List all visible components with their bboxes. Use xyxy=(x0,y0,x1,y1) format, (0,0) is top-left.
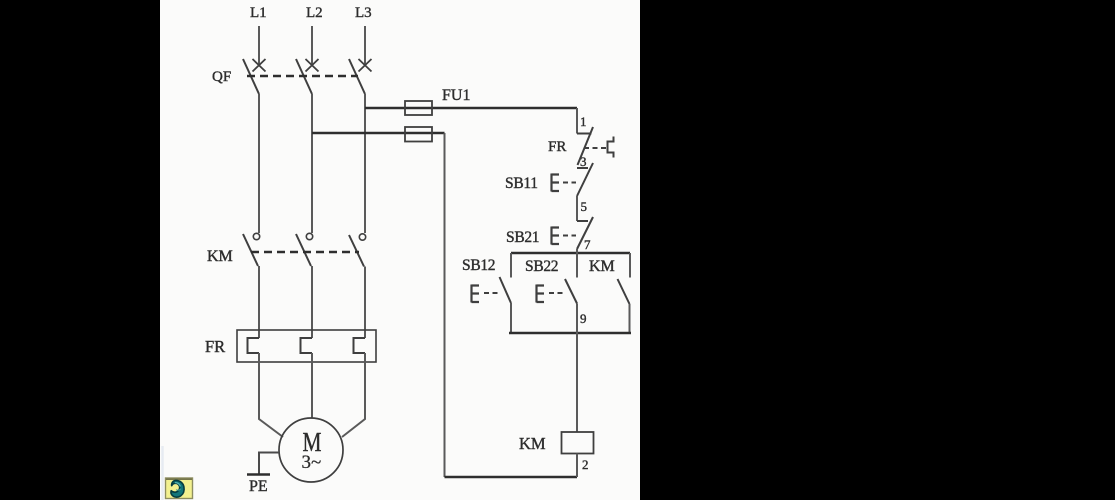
wire phase L2 FR to motor xyxy=(311,353,313,418)
contactor KM main contact 1 xyxy=(243,233,260,266)
thermal overload FR heater element 1 xyxy=(248,338,260,353)
wire left control rail xyxy=(444,133,446,477)
breaker QF pole 2 contact cross xyxy=(306,59,319,72)
svg-text:KM: KM xyxy=(207,248,233,265)
fuse FU1b xyxy=(405,127,432,142)
wire L3 drop xyxy=(364,26,366,65)
svg-text:3: 3 xyxy=(580,154,587,169)
svg-text:FU1: FU1 xyxy=(442,87,470,104)
wire phase L2 QF to KM xyxy=(311,94,313,233)
wire motor to PE xyxy=(259,453,279,475)
svg-text:3~: 3~ xyxy=(302,452,322,473)
svg-text:SB21: SB21 xyxy=(506,229,539,246)
wire parallel branch top xyxy=(511,252,630,254)
motor M 3-phase xyxy=(279,418,343,482)
wire L3 tap to fuse FU1a xyxy=(365,107,577,109)
svg-text:5: 5 xyxy=(581,199,588,214)
wire node 5 xyxy=(576,196,578,221)
wire phase L3 KM to FR xyxy=(364,267,366,339)
contactor KM main contact 3 xyxy=(349,234,366,267)
svg-text:SB22: SB22 xyxy=(525,258,558,275)
breaker QF linkage dashed xyxy=(247,75,358,77)
svg-text:SB11: SB11 xyxy=(505,175,538,192)
svg-text:L2: L2 xyxy=(306,5,323,21)
wire L1 drop xyxy=(258,26,260,65)
breaker QF pole 3 contact cross xyxy=(359,59,372,72)
wire node 9 to coil xyxy=(576,304,578,433)
thermal overload FR heater element 2 xyxy=(301,338,313,353)
wire phase L2 KM to FR xyxy=(311,266,313,338)
pushbutton SB11 (NC stop) xyxy=(552,163,594,196)
wire phase L1 KM to FR xyxy=(258,266,260,338)
svg-text:L3: L3 xyxy=(355,5,372,21)
wire phase L1 QF to KM xyxy=(258,94,260,233)
coil KM xyxy=(562,432,594,454)
wire L2 drop xyxy=(311,26,313,65)
fuse FU1a xyxy=(405,101,432,115)
svg-text:SB12: SB12 xyxy=(462,257,495,274)
pushbutton SB21 (NC stop) xyxy=(552,217,594,249)
svg-text:7: 7 xyxy=(584,237,591,252)
relay contact FR (NC) xyxy=(577,127,614,165)
wire SB22 branch upper xyxy=(576,249,578,278)
svg-text:1: 1 xyxy=(580,114,587,129)
breaker QF pole 1 contact cross xyxy=(253,59,266,72)
svg-text:PE: PE xyxy=(249,478,268,495)
thermal overload FR heater element 3 xyxy=(354,338,366,353)
watermark icon xyxy=(166,478,193,499)
wire parallel branch bottom xyxy=(509,332,631,334)
breaker QF pole 2 blade xyxy=(296,59,312,94)
breaker QF pole 3 blade xyxy=(349,59,365,94)
pushbutton SB22 (NO start) xyxy=(537,279,578,304)
svg-text:FR: FR xyxy=(205,337,225,356)
wire phase L3 QF to KM xyxy=(364,94,366,233)
svg-text:9: 9 xyxy=(580,311,587,326)
wire phase L3 FR to motor xyxy=(342,353,365,437)
wire L2 tap to fuse FU1b xyxy=(312,132,445,134)
wire right rail node 1 xyxy=(576,108,578,134)
svg-text:L1: L1 xyxy=(250,5,267,21)
svg-text:KM: KM xyxy=(519,434,546,453)
svg-text:KM: KM xyxy=(589,258,615,275)
svg-text:FR: FR xyxy=(548,139,566,155)
breaker QF pole 1 blade xyxy=(243,59,259,94)
ground PE symbol xyxy=(247,473,270,475)
svg-text:QF: QF xyxy=(212,69,231,85)
svg-text:2: 2 xyxy=(582,457,589,472)
wire coil to bottom rail xyxy=(576,454,578,478)
wire phase L1 FR to motor xyxy=(259,353,283,437)
contactor KM auxiliary contact (NO) xyxy=(618,253,631,333)
pushbutton SB12 (NO start) xyxy=(472,253,512,333)
thermal overload FR outline box xyxy=(237,330,376,362)
contactor KM linkage dashed xyxy=(251,251,359,253)
contactor KM main contact 2 xyxy=(296,233,313,266)
wire bottom control rail xyxy=(445,476,578,478)
scan edge strip xyxy=(161,446,163,500)
